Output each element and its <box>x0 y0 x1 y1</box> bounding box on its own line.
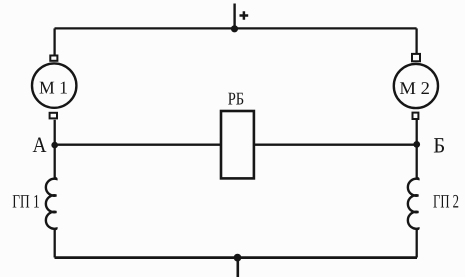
wire middle left: node A to RB <box>55 144 221 146</box>
svg-text:М 2: М 2 <box>399 78 430 98</box>
wire top rail <box>55 27 417 29</box>
wire right drop to M2 <box>415 28 417 54</box>
wire bottom rail <box>55 256 418 259</box>
svg-text:М 1: М 1 <box>39 77 68 97</box>
motor M1 circle <box>32 63 76 107</box>
wire minus stub <box>237 258 240 277</box>
node junction dot (bottom, -) <box>234 254 242 262</box>
svg-text:РБ: РБ <box>228 89 245 109</box>
svg-text:ГП 2: ГП 2 <box>433 191 459 212</box>
motor M1 terminal square bottom <box>50 113 57 119</box>
node A junction dot <box>51 142 58 149</box>
svg-text:Б: Б <box>433 133 445 158</box>
motor M1 terminal square top <box>50 56 57 61</box>
wire plus stub <box>233 4 235 29</box>
wire M1 to node A to coil <box>54 120 56 179</box>
motor M2 circle <box>394 64 438 108</box>
wire coil GP1 to bottom rail <box>54 229 56 258</box>
resistor RB box <box>221 111 254 178</box>
wire left drop to M1 <box>53 28 55 55</box>
svg-text:ГП 1: ГП 1 <box>12 191 40 212</box>
motor M2 terminal square top <box>412 54 420 61</box>
node junction dot (top, +) <box>231 25 238 32</box>
wire middle right: RB to node B <box>254 144 417 146</box>
wire M2 to node B to coil <box>416 119 418 178</box>
node B junction dot <box>413 141 420 148</box>
plus terminal label <box>240 11 249 20</box>
motor M2 terminal square bottom <box>413 113 419 119</box>
svg-text:А: А <box>33 132 47 157</box>
inductor GP1 <box>46 178 57 229</box>
inductor GP2 <box>408 178 419 229</box>
wire coil GP2 to bottom rail <box>416 229 418 258</box>
